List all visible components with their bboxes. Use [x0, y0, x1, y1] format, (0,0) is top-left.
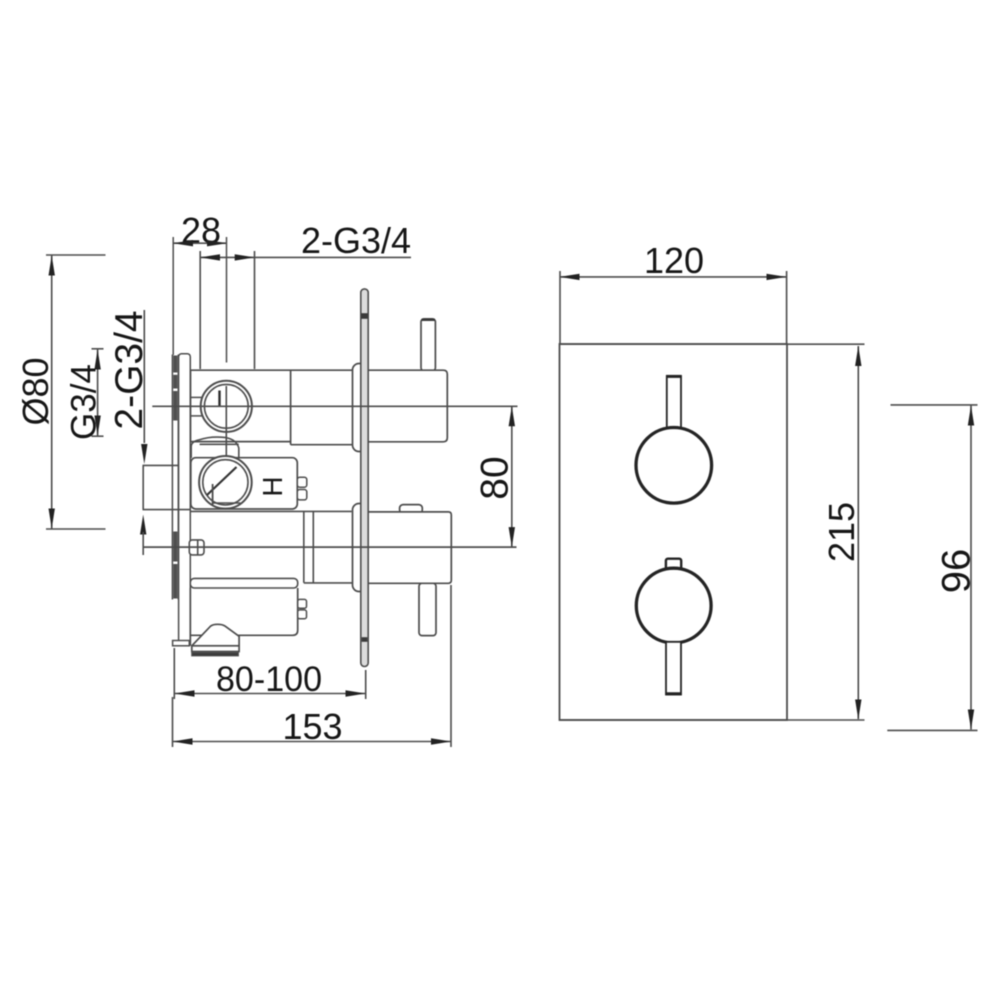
side view: top inlet stub	[191, 397, 202, 416]
svg-text:80: 80	[474, 456, 517, 499]
dim 28 text	[181, 210, 221, 251]
label 2-G3/4 left leader	[140, 310, 191, 555]
dim 80-100 text	[216, 660, 322, 699]
dim Ø80 text	[15, 357, 56, 425]
svg-text:G3/4: G3/4	[65, 364, 104, 440]
H label	[257, 476, 288, 496]
side view: top handle hub	[364, 319, 447, 442]
side view: lower body block	[190, 588, 297, 646]
label 2-G3/4 leader line with arrows	[200, 251, 411, 369]
svg-text:80-100: 80-100	[216, 660, 322, 699]
label 2-G3/4 top text	[301, 220, 411, 261]
dim G3/4 text	[65, 364, 104, 440]
dim 28 line	[173, 240, 227, 246]
side view: lower body top edge	[143, 510, 352, 512]
side view: top sleeve	[353, 364, 367, 452]
dim 215 text	[821, 502, 862, 562]
side view: lower port circle	[199, 456, 252, 509]
side view: top port circle	[201, 381, 252, 457]
svg-text:120: 120	[644, 240, 704, 281]
svg-text:153: 153	[282, 706, 342, 747]
svg-text:H: H	[257, 476, 288, 496]
label 2-G3/4 left rotated text	[108, 310, 151, 429]
dim 153 text	[282, 706, 342, 747]
H box screw bumps	[297, 477, 307, 500]
dim 28 extension lines	[173, 237, 226, 363]
side view: top handle stem cap	[422, 319, 435, 321]
front view: bottom knob	[636, 559, 711, 695]
dim Ø80	[46, 255, 106, 529]
side view: lower centerline	[143, 546, 517, 548]
side view: lower sleeve	[353, 504, 367, 592]
dim 120 text	[644, 240, 704, 281]
side view: outlet spout	[192, 624, 239, 656]
side view: H thermostat box	[191, 458, 297, 509]
dim 80 side text	[474, 456, 517, 499]
side view: lower inlet tab	[189, 540, 204, 555]
side view: lower body lid	[190, 578, 297, 588]
dim G3/4	[92, 349, 104, 436]
side view: lower cartridge column	[304, 511, 449, 583]
svg-text:96: 96	[935, 549, 979, 594]
svg-text:Ø80: Ø80	[15, 357, 56, 425]
lower block screw bumps	[298, 599, 307, 618]
side view: top body block	[191, 370, 353, 445]
side view: trim plate (side)	[361, 289, 368, 667]
dim 153	[173, 585, 452, 747]
dim 96	[887, 405, 977, 731]
dim 80 side	[509, 406, 515, 547]
svg-text:2-G3/4: 2-G3/4	[301, 220, 411, 261]
front view: plate	[560, 344, 788, 720]
side view: top centerline	[152, 405, 517, 407]
dim 96 text	[935, 549, 979, 594]
dim 120	[560, 271, 787, 344]
side view: collar between ports	[191, 437, 239, 458]
side view: wall bracket rail	[172, 354, 190, 646]
side view: lower handle hub	[364, 505, 451, 636]
dim 80-100	[174, 648, 365, 699]
dim 215	[560, 344, 865, 720]
svg-text:215: 215	[821, 502, 862, 562]
front view: top knob	[636, 376, 712, 503]
